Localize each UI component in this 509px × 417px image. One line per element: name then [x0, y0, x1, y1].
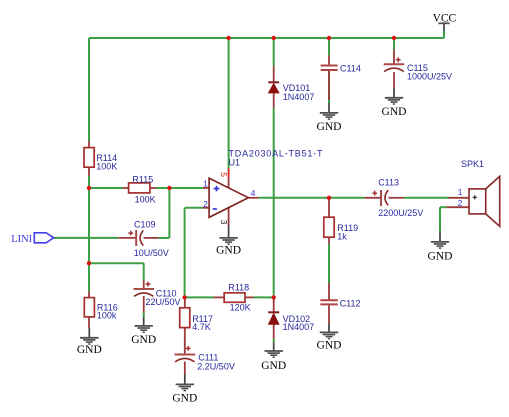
svg-text:VCC: VCC — [433, 12, 457, 24]
svg-text:C113: C113 — [378, 178, 399, 188]
svg-text:C112: C112 — [340, 298, 361, 308]
svg-text:1000U/25V: 1000U/25V — [407, 71, 452, 81]
svg-text:2200U/25V: 2200U/25V — [378, 208, 423, 218]
svg-text:1: 1 — [203, 179, 208, 189]
svg-text:100k: 100k — [97, 311, 117, 321]
svg-text:2: 2 — [458, 198, 463, 208]
svg-text:120K: 120K — [230, 302, 251, 312]
svg-text:100K: 100K — [135, 195, 156, 205]
svg-text:100K: 100K — [96, 162, 117, 172]
svg-text:2: 2 — [203, 199, 208, 209]
svg-text:GND: GND — [382, 106, 407, 118]
svg-text:10U/50V: 10U/50V — [134, 248, 169, 258]
svg-text:R115: R115 — [132, 174, 153, 184]
svg-text:C114: C114 — [340, 63, 361, 73]
svg-text:SPK1: SPK1 — [461, 159, 484, 169]
svg-text:GND: GND — [261, 360, 286, 372]
svg-text:U1: U1 — [229, 158, 241, 168]
svg-text:GND: GND — [77, 344, 102, 356]
svg-text:GND: GND — [317, 340, 342, 352]
svg-text:5: 5 — [219, 172, 229, 177]
svg-text:22U/50V: 22U/50V — [146, 297, 181, 307]
svg-text:TDA2030AL-TB51-T: TDA2030AL-TB51-T — [229, 148, 324, 158]
svg-text:GND: GND — [428, 250, 453, 262]
svg-text:1N4007: 1N4007 — [283, 92, 315, 102]
svg-text:2.2U/50V: 2.2U/50V — [197, 362, 235, 372]
svg-text:GND: GND — [172, 393, 197, 405]
svg-text:LINI: LINI — [11, 234, 32, 245]
svg-text:1k: 1k — [337, 231, 347, 241]
svg-text:4: 4 — [251, 188, 256, 198]
svg-text:GND: GND — [131, 334, 156, 346]
svg-text:GND: GND — [317, 121, 342, 133]
svg-text:C109: C109 — [134, 220, 156, 230]
svg-text:4.7K: 4.7K — [192, 322, 211, 332]
svg-text:1N4007: 1N4007 — [283, 322, 315, 332]
svg-text:3: 3 — [219, 220, 229, 225]
svg-text:R118: R118 — [228, 283, 249, 293]
svg-text:1: 1 — [458, 187, 463, 197]
svg-text:GND: GND — [216, 245, 241, 257]
